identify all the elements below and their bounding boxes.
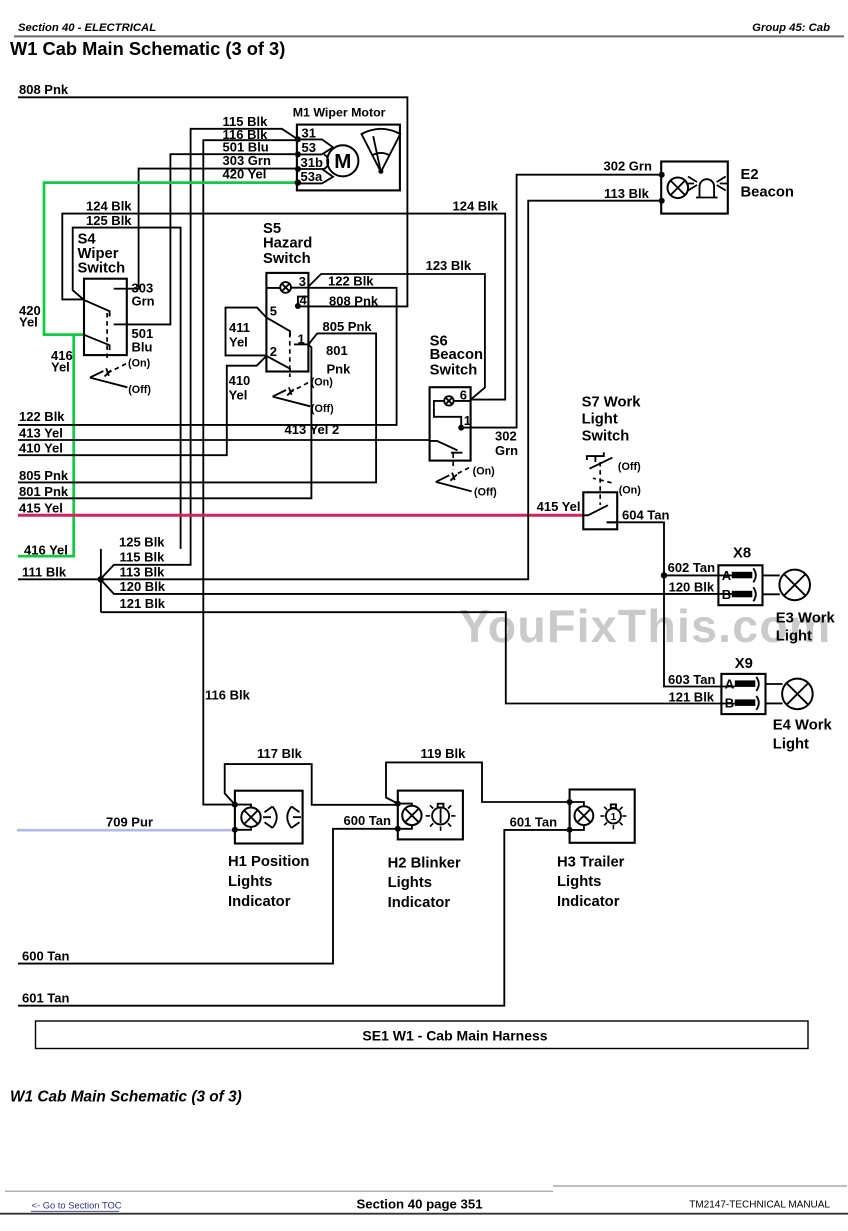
svg-text:Light: Light	[582, 411, 618, 427]
pin 31	[297, 139, 333, 147]
switch S5 Hazard	[263, 221, 334, 415]
node S6 pin1 dot	[458, 425, 464, 431]
S5 On/Off marks	[290, 383, 308, 393]
wire 113 Blk (junction to E2 beacon)	[101, 186, 662, 580]
H3 lamp	[570, 802, 584, 830]
svg-text:53: 53	[302, 140, 316, 155]
arm link dashed	[106, 313, 108, 361]
svg-text:A: A	[722, 568, 732, 583]
svg-text:4: 4	[300, 292, 308, 307]
wire 709 Pur lavender (left margin to H1)	[17, 815, 235, 831]
svg-text:801: 801	[326, 343, 348, 358]
harness box SE1	[36, 1021, 809, 1049]
svg-text:H1 Position: H1 Position	[228, 854, 309, 870]
svg-text:E4 Work: E4 Work	[773, 717, 833, 733]
svg-text:604 Tan: 604 Tan	[622, 507, 670, 522]
svg-text:125 Blk: 125 Blk	[86, 213, 132, 228]
wire 111 Blk (left margin to junction)	[18, 565, 101, 580]
svg-text:801 Pnk: 801 Pnk	[19, 484, 69, 499]
wire 119 Blk (H2 to H3 loop)	[386, 746, 570, 804]
svg-text:416 Yel: 416 Yel	[24, 542, 68, 557]
svg-text:SE1 W1 - Cab Main Harness: SE1 W1 - Cab Main Harness	[362, 1028, 547, 1044]
svg-text:Switch: Switch	[263, 251, 311, 267]
svg-text:W1 Cab Main Schematic (3 of 3): W1 Cab Main Schematic (3 of 3)	[10, 38, 285, 59]
svg-text:Yel: Yel	[229, 335, 248, 350]
svg-text:Light: Light	[773, 736, 809, 752]
svg-text:(Off): (Off)	[128, 384, 151, 396]
svg-text:Switch: Switch	[78, 261, 126, 277]
svg-text:B: B	[722, 587, 731, 602]
svg-text:Hazard: Hazard	[263, 235, 312, 251]
svg-text:116 Blk: 116 Blk	[205, 688, 251, 703]
wire 303 Grn (S4 to motor pin31b)	[127, 153, 298, 289]
wire 805 Pnk (S5 pin1 to left margin)	[18, 319, 376, 483]
svg-text:411: 411	[229, 320, 250, 335]
H3 trailer icon	[606, 809, 621, 824]
svg-text:111 Blk: 111 Blk	[22, 565, 67, 580]
wire 601 Tan (bottom to H3)	[18, 814, 570, 1005]
arm	[430, 441, 463, 453]
svg-text:H2 Blinker: H2 Blinker	[388, 855, 461, 871]
wire 410 Yel (left margin to S5 pin2)	[18, 356, 267, 456]
svg-text:(On): (On)	[311, 376, 334, 388]
node S5 pin4 junction dot	[295, 303, 301, 309]
svg-text:<- Go to Section TOC: <- Go to Section TOC	[32, 1200, 122, 1211]
svg-text:Section 40 - ELECTRICAL: Section 40 - ELECTRICAL	[18, 22, 156, 34]
motor circle	[327, 145, 358, 176]
svg-text:TM2147-TECHNICAL MANUAL: TM2147-TECHNICAL MANUAL	[689, 1200, 830, 1211]
svg-text:(On): (On)	[619, 484, 642, 496]
S5 lamp	[280, 282, 291, 293]
svg-text:A: A	[725, 676, 735, 691]
svg-text:410: 410	[229, 373, 251, 388]
svg-text:601 Tan: 601 Tan	[510, 814, 558, 829]
wire 115 Blk (motor pin31 to junction bus)	[102, 114, 298, 578]
wire 124 Blk (S4 to S6 pin6)	[62, 199, 505, 400]
svg-text:Switch: Switch	[582, 428, 630, 444]
wiper blade icon	[362, 129, 401, 172]
motor pin junction dots	[295, 136, 301, 142]
svg-text:Yel: Yel	[19, 315, 38, 330]
svg-text:121 Blk: 121 Blk	[669, 689, 715, 704]
wire 801 Pnk (S5 pin1 to left margin)	[18, 343, 351, 499]
S7 toggle marks	[587, 452, 604, 462]
svg-text:413 Yel: 413 Yel	[19, 425, 63, 440]
svg-text:2: 2	[270, 344, 277, 359]
indicator H1 Position Lights	[228, 791, 309, 910]
E2 lamp	[668, 178, 689, 199]
svg-text:Switch: Switch	[430, 363, 478, 379]
connector X9	[721, 656, 765, 714]
svg-text:Light: Light	[776, 628, 812, 644]
wire 123 Blk (S5 pin3 to S6 pin6)	[308, 258, 485, 400]
switch S7 Work Light	[582, 394, 642, 529]
S6 On/Off marks	[455, 468, 469, 475]
wire 415 Yel pink (left margin to S7)	[18, 499, 583, 516]
E2 beacon icon	[696, 179, 718, 197]
svg-text:Section 40 page 351: Section 40 page 351	[356, 1197, 482, 1212]
svg-text:602 Tan: 602 Tan	[668, 560, 716, 575]
svg-text:E2: E2	[741, 167, 759, 183]
svg-text:410 Yel: 410 Yel	[19, 440, 63, 455]
switch S6 Beacon	[430, 334, 498, 499]
switch arm upper	[84, 300, 110, 317]
node 602 Tan junction dot	[661, 572, 667, 578]
S4 On/Off marks	[107, 364, 126, 374]
svg-text:S7 Work: S7 Work	[582, 394, 642, 410]
wire 600 Tan (bottom to H2)	[18, 813, 398, 964]
page footer	[5, 1190, 553, 1192]
svg-text:6: 6	[460, 388, 467, 403]
svg-text:415 Yel: 415 Yel	[19, 501, 63, 516]
wire 420 Yel green (motor pin53a to S4)	[19, 167, 298, 335]
svg-text:119 Blk: 119 Blk	[421, 746, 467, 761]
svg-text:B: B	[725, 695, 734, 710]
svg-text:302 Grn: 302 Grn	[604, 159, 652, 174]
pin 53	[297, 147, 333, 154]
svg-text:Group 45: Cab: Group 45: Cab	[752, 22, 830, 34]
svg-text:303 Grn: 303 Grn	[223, 153, 271, 168]
svg-text:122 Blk: 122 Blk	[328, 274, 374, 289]
lamp E4 Work Light	[766, 679, 833, 753]
wire S5 pin4 stub	[298, 297, 308, 306]
wire 121 Blk (junction to X9 pinB)	[101, 596, 735, 705]
svg-text:Indicator: Indicator	[228, 894, 291, 910]
svg-text:124 Blk: 124 Blk	[86, 199, 132, 214]
svg-text:Lights: Lights	[388, 875, 432, 891]
svg-text:420 Yel: 420 Yel	[223, 167, 267, 182]
switch S4 Wiper	[78, 232, 155, 396]
svg-text:Beacon: Beacon	[430, 347, 483, 363]
svg-text:31b: 31b	[301, 155, 323, 170]
wire 117 Blk (H1 to H2 loop)	[225, 746, 398, 805]
svg-text:808 Pnk: 808 Pnk	[329, 294, 379, 309]
node 111 Blk junction dot	[98, 576, 104, 582]
indicator H2 Blinker Lights	[388, 791, 463, 911]
svg-text:120 Blk: 120 Blk	[669, 579, 715, 594]
svg-text:122 Blk: 122 Blk	[19, 409, 65, 424]
wire 501 Blu (S4 to motor pin53)	[127, 140, 298, 325]
svg-text:1: 1	[464, 413, 471, 428]
H1 position light icon	[263, 807, 277, 828]
svg-text:Grn: Grn	[132, 294, 155, 309]
wire 122 Blk (S5 pin3 to left margin)	[18, 274, 397, 425]
svg-text:123 Blk: 123 Blk	[426, 258, 472, 273]
arm link dashed	[452, 454, 454, 471]
H2 blinker icon	[432, 807, 449, 824]
pin 501 Blu tick	[114, 323, 127, 325]
connector X8	[718, 546, 762, 606]
pin 303 Grn tick	[114, 288, 127, 290]
svg-text:415 Yel: 415 Yel	[537, 499, 581, 514]
wire 604 Tan (S7 to X8/X9 feed)	[607, 507, 735, 686]
svg-text:709 Pur: 709 Pur	[106, 815, 153, 830]
svg-text:Lights: Lights	[557, 874, 601, 890]
beacon E2	[659, 162, 794, 214]
arm from pin5	[267, 318, 291, 336]
svg-text:121 Blk: 121 Blk	[120, 596, 166, 611]
svg-text:600 Tan: 600 Tan	[344, 813, 392, 828]
svg-text:Beacon: Beacon	[741, 185, 794, 201]
motor M1	[293, 106, 401, 191]
wire 416 Yel green branch	[18, 335, 74, 558]
svg-text:113 Blk: 113 Blk	[604, 186, 650, 201]
svg-text:W1 Cab Main Schematic (3 of 3): W1 Cab Main Schematic (3 of 3)	[10, 1089, 242, 1106]
svg-text:Indicator: Indicator	[557, 894, 620, 910]
S6 lamp	[444, 396, 453, 405]
wire 808 Pnk bus	[18, 82, 407, 306]
svg-text:Grn: Grn	[495, 443, 518, 458]
svg-text:113 Blk: 113 Blk	[120, 565, 166, 580]
svg-text:Yel: Yel	[51, 360, 70, 375]
H2 lamp	[398, 804, 412, 829]
svg-text:(Off): (Off)	[474, 487, 497, 499]
svg-text:5: 5	[270, 303, 277, 318]
svg-text:M: M	[334, 150, 351, 173]
svg-text:805 Pnk: 805 Pnk	[19, 468, 69, 483]
svg-text:601 Tan: 601 Tan	[22, 990, 70, 1005]
svg-text:1: 1	[611, 812, 617, 823]
svg-text:(On): (On)	[128, 357, 151, 369]
pin 31b	[297, 154, 328, 169]
svg-text:Blu: Blu	[132, 339, 153, 354]
arm link dashed	[289, 333, 291, 377]
lamp E3 Work Light	[763, 570, 836, 645]
arm	[583, 505, 617, 522]
H1 lamp	[235, 805, 251, 830]
svg-text:805 Pnk: 805 Pnk	[323, 319, 373, 334]
svg-text:Lights: Lights	[228, 874, 272, 890]
svg-text:120 Blk: 120 Blk	[120, 579, 166, 594]
svg-text:Indicator: Indicator	[388, 895, 451, 911]
wire 411 Yel flag (S5 pin5 to pin2)	[226, 308, 267, 356]
wire 120 Blk (junction to X8 pinB)	[102, 579, 732, 595]
svg-text:115 Blk: 115 Blk	[120, 549, 166, 564]
svg-text:X8: X8	[733, 546, 751, 562]
svg-text:31: 31	[302, 125, 316, 140]
svg-text:600 Tan: 600 Tan	[22, 948, 70, 963]
svg-text:X9: X9	[735, 656, 753, 672]
svg-text:H3 Trailer: H3 Trailer	[557, 854, 625, 870]
svg-text:124 Blk: 124 Blk	[453, 199, 499, 214]
svg-text:3: 3	[299, 274, 306, 289]
svg-text:603 Tan: 603 Tan	[668, 672, 716, 687]
wire 116 Blk (motor to H1)	[203, 127, 298, 805]
svg-text:302: 302	[495, 429, 517, 444]
svg-text:M1 Wiper Motor: M1 Wiper Motor	[293, 106, 386, 120]
svg-text:E3 Work: E3 Work	[776, 610, 836, 626]
arm from pin2	[267, 356, 291, 372]
svg-text:808 Pnk: 808 Pnk	[19, 82, 69, 97]
wire junction bracket	[100, 549, 102, 612]
wire 125 Blk (S4 to junction bus)	[73, 213, 181, 549]
indicator H3 Trailer Lights	[557, 790, 635, 910]
svg-text:(On): (On)	[473, 465, 496, 477]
svg-text:(Off): (Off)	[311, 403, 334, 415]
switch arm lower	[84, 335, 110, 350]
wire 413 Yel (left margin to S6)	[18, 422, 430, 440]
wire 302 Grn (E2 beacon to S6 pin1)	[461, 159, 662, 458]
pin 53a	[297, 169, 333, 183]
svg-text:Pnk: Pnk	[327, 361, 352, 376]
svg-text:125 Blk: 125 Blk	[119, 534, 165, 549]
svg-text:(Off): (Off)	[618, 461, 641, 473]
svg-text:Yel: Yel	[229, 388, 248, 403]
wire 602 Tan (to X8 pinA)	[664, 560, 732, 576]
svg-text:53a: 53a	[301, 169, 323, 184]
svg-text:117 Blk: 117 Blk	[257, 746, 303, 761]
